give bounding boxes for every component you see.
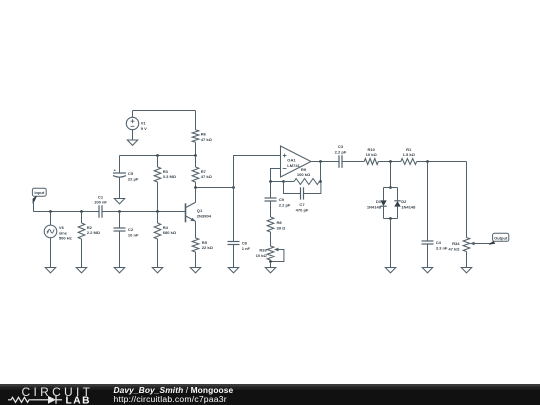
ground below diodes: [385, 268, 395, 273]
svg-text:100 nF: 100 nF: [94, 200, 107, 205]
svg-text:R33: R33: [259, 247, 267, 252]
wire bottom rail right: [102, 211, 186, 213]
resistor R10 10k: [364, 147, 378, 164]
source V6 sine 500Hz: [44, 225, 72, 240]
footer logo diode: [48, 396, 56, 404]
wire output down to feedback: [320, 162, 322, 182]
wire C3 to R10: [342, 161, 364, 163]
capacitor C5 22uF polarized: [113, 168, 139, 182]
resistor R9 100k: [284, 167, 321, 184]
svg-text:9 V: 9 V: [141, 126, 147, 131]
resistor R1 1.5k: [401, 147, 417, 164]
wire bottom rail left: [34, 211, 100, 213]
ground below R34: [461, 268, 471, 273]
svg-text:1.5 kΩ: 1.5 kΩ: [403, 152, 416, 157]
wire V1 top lead: [132, 111, 134, 118]
svg-text:D2: D2: [401, 199, 407, 204]
svg-text:470 pF: 470 pF: [296, 207, 309, 212]
wire diode box bottom bar: [384, 218, 398, 220]
svg-text:1N4148: 1N4148: [367, 205, 382, 210]
svg-text:C5: C5: [128, 171, 134, 176]
svg-text:C2: C2: [128, 227, 134, 232]
wire C7 loop left: [284, 182, 301, 194]
op-amp OA1 LM741: [281, 146, 312, 177]
capacitor C9 2.2pF: [265, 197, 291, 208]
svg-text:C9: C9: [279, 197, 285, 202]
svg-text:V1: V1: [141, 120, 147, 125]
capacitor C3 2.2pF: [335, 144, 347, 168]
wire V6 bottom lead: [50, 238, 52, 268]
ground below V1: [127, 140, 137, 145]
svg-text:LM741: LM741: [287, 163, 300, 168]
wire C9 top lead: [270, 182, 272, 199]
capacitor C2 10nF: [114, 227, 139, 238]
svg-text:47 kΩ: 47 kΩ: [201, 137, 213, 142]
svg-text:http://circuitlab.com/c7paa3r: http://circuitlab.com/c7paa3r: [114, 394, 227, 404]
ground below R5: [190, 268, 200, 273]
svg-text:+: +: [114, 168, 117, 173]
input flag: [32, 188, 46, 203]
wire - input: [271, 169, 281, 182]
svg-text:2N3904: 2N3904: [197, 214, 212, 219]
svg-text:1N4148: 1N4148: [401, 205, 416, 210]
ground below C2: [114, 268, 124, 273]
svg-text:OA1: OA1: [287, 157, 296, 162]
wire branch up to + input: [234, 156, 281, 188]
wire diode box top bar: [384, 187, 398, 189]
svg-text:2.2 pF: 2.2 pF: [279, 202, 291, 207]
wire C7 loop right: [304, 182, 321, 194]
node R7 collector junction: [194, 186, 197, 189]
svg-text:Input: Input: [34, 190, 45, 195]
resistor R5 22k: [195, 237, 197, 239]
node C2 tap: [118, 210, 121, 213]
wire R33 to ground: [270, 262, 272, 268]
node mid rail R3: [156, 154, 159, 157]
node output feedback tap: [319, 160, 322, 163]
resistor R4 680k: [157, 212, 159, 224]
ground below V6: [45, 268, 55, 273]
node C4 tap: [426, 160, 429, 163]
node R2 tap: [80, 210, 83, 213]
svg-text:R3: R3: [163, 169, 169, 174]
wire opamp output: [311, 161, 339, 163]
svg-text:R7: R7: [201, 169, 207, 174]
wire R34 to ground: [466, 252, 468, 268]
wire C5 bottom lead: [119, 177, 121, 198]
wire diodes to ground: [390, 219, 392, 268]
diode D1 1N4148: [367, 188, 387, 219]
resistor R6 47k: [195, 111, 197, 130]
wire Q1 collector: [195, 188, 197, 203]
svg-text:2.2 MΩ: 2.2 MΩ: [87, 230, 101, 235]
svg-text:3.3 nF: 3.3 nF: [436, 245, 448, 250]
svg-text:C8: C8: [242, 240, 248, 245]
svg-text:22 kΩ: 22 kΩ: [202, 245, 214, 250]
wire R7 junction to branch: [196, 187, 234, 189]
wire R8 to R33: [270, 232, 272, 246]
wire Q1 emitter: [195, 221, 197, 238]
node feedback right: [319, 180, 322, 183]
svg-text:R6: R6: [201, 132, 207, 137]
footer logo diode wire: [33, 399, 48, 401]
output flag: [489, 233, 509, 244]
svg-text:39 Ω: 39 Ω: [277, 225, 287, 230]
diode D2 1N4148: [394, 188, 416, 219]
resistor R3 3.3M: [157, 156, 159, 168]
voltage source V1 9V: [126, 117, 147, 131]
wire V1 bottom lead: [132, 130, 134, 140]
node diode box top: [389, 186, 392, 189]
svg-text:47 kΩ: 47 kΩ: [201, 174, 213, 179]
svg-text:2.2 pF: 2.2 pF: [335, 149, 347, 154]
node R33 wiper join: [269, 260, 272, 263]
wire R34 top lead: [466, 162, 468, 238]
capacitor C8 1nF: [228, 240, 251, 251]
capacitor C1 100nF: [94, 194, 107, 217]
svg-text:500 Hz: 500 Hz: [59, 236, 72, 241]
wire R10 to R1: [378, 161, 401, 163]
resistor R2 2.2M: [81, 212, 83, 224]
svg-text:R2: R2: [87, 225, 93, 230]
svg-text:R5: R5: [202, 240, 208, 245]
svg-text:680 kΩ: 680 kΩ: [163, 230, 177, 235]
node opamp branch junction: [232, 186, 235, 189]
node feedback mid: [282, 180, 285, 183]
svg-text:10 kΩ: 10 kΩ: [366, 152, 378, 157]
svg-text:3.3 MΩ: 3.3 MΩ: [163, 174, 177, 179]
ground below R2: [76, 268, 86, 273]
svg-text:C4: C4: [436, 240, 442, 245]
wire diode branch vertical: [390, 162, 392, 188]
wire C4 top lead: [427, 162, 429, 242]
node V6 tap: [49, 210, 52, 213]
footer logo resistor zigzag: [8, 397, 33, 402]
ground below C8: [228, 268, 238, 273]
ground below R4: [152, 268, 162, 273]
wire C8 top lead: [233, 188, 235, 242]
svg-text:LAB: LAB: [66, 395, 91, 405]
wire C8 bottom lead: [233, 245, 235, 268]
wire R1 to corner: [417, 161, 467, 163]
capacitor C7 470pF: [296, 187, 309, 212]
wire V6 top lead: [50, 212, 52, 226]
node R3 R4 tap: [156, 210, 159, 213]
svg-text:Output: Output: [494, 235, 508, 240]
wire C2 bottom lead: [119, 231, 121, 268]
svg-text:1 nF: 1 nF: [242, 246, 251, 251]
svg-text:R8: R8: [277, 220, 283, 225]
svg-text:22 µF: 22 µF: [128, 177, 139, 182]
ground below C4: [422, 268, 432, 273]
wire C2 top lead: [119, 212, 121, 229]
ground below R33: [265, 268, 275, 273]
svg-text:10 kΩ: 10 kΩ: [256, 253, 268, 258]
capacitor C4 3.3nF: [422, 240, 448, 251]
resistor R8 39ohm: [267, 217, 286, 232]
wire top rail V1 to R6: [133, 110, 196, 112]
node mid rail R6 R7: [194, 154, 197, 157]
wire mid rail: [120, 155, 196, 157]
footer bar: [0, 384, 540, 405]
svg-text:R34: R34: [452, 241, 460, 246]
potentiometer R33 10k: [256, 246, 284, 262]
svg-text:47 kΩ: 47 kΩ: [448, 247, 460, 252]
ground below C5: [114, 199, 124, 204]
wire C9 to R8: [270, 201, 272, 217]
wire C4 bottom lead: [427, 244, 429, 268]
resistor R7 47k: [195, 156, 197, 168]
node feedback left: [269, 180, 272, 183]
svg-text:Q1: Q1: [197, 208, 203, 213]
svg-text:10 nF: 10 nF: [128, 232, 139, 237]
svg-text:100 kΩ: 100 kΩ: [297, 172, 311, 177]
svg-text:R4: R4: [163, 225, 169, 230]
wire feedback rail left: [271, 181, 284, 183]
potentiometer R34 47k: [448, 238, 490, 252]
node diode tap: [389, 160, 392, 163]
transistor Q1 2N3904: [186, 202, 212, 222]
node diode box bottom: [389, 217, 392, 220]
wire C5 top lead: [119, 156, 121, 174]
svg-text:D1: D1: [376, 199, 382, 204]
wire input drop: [33, 201, 35, 212]
